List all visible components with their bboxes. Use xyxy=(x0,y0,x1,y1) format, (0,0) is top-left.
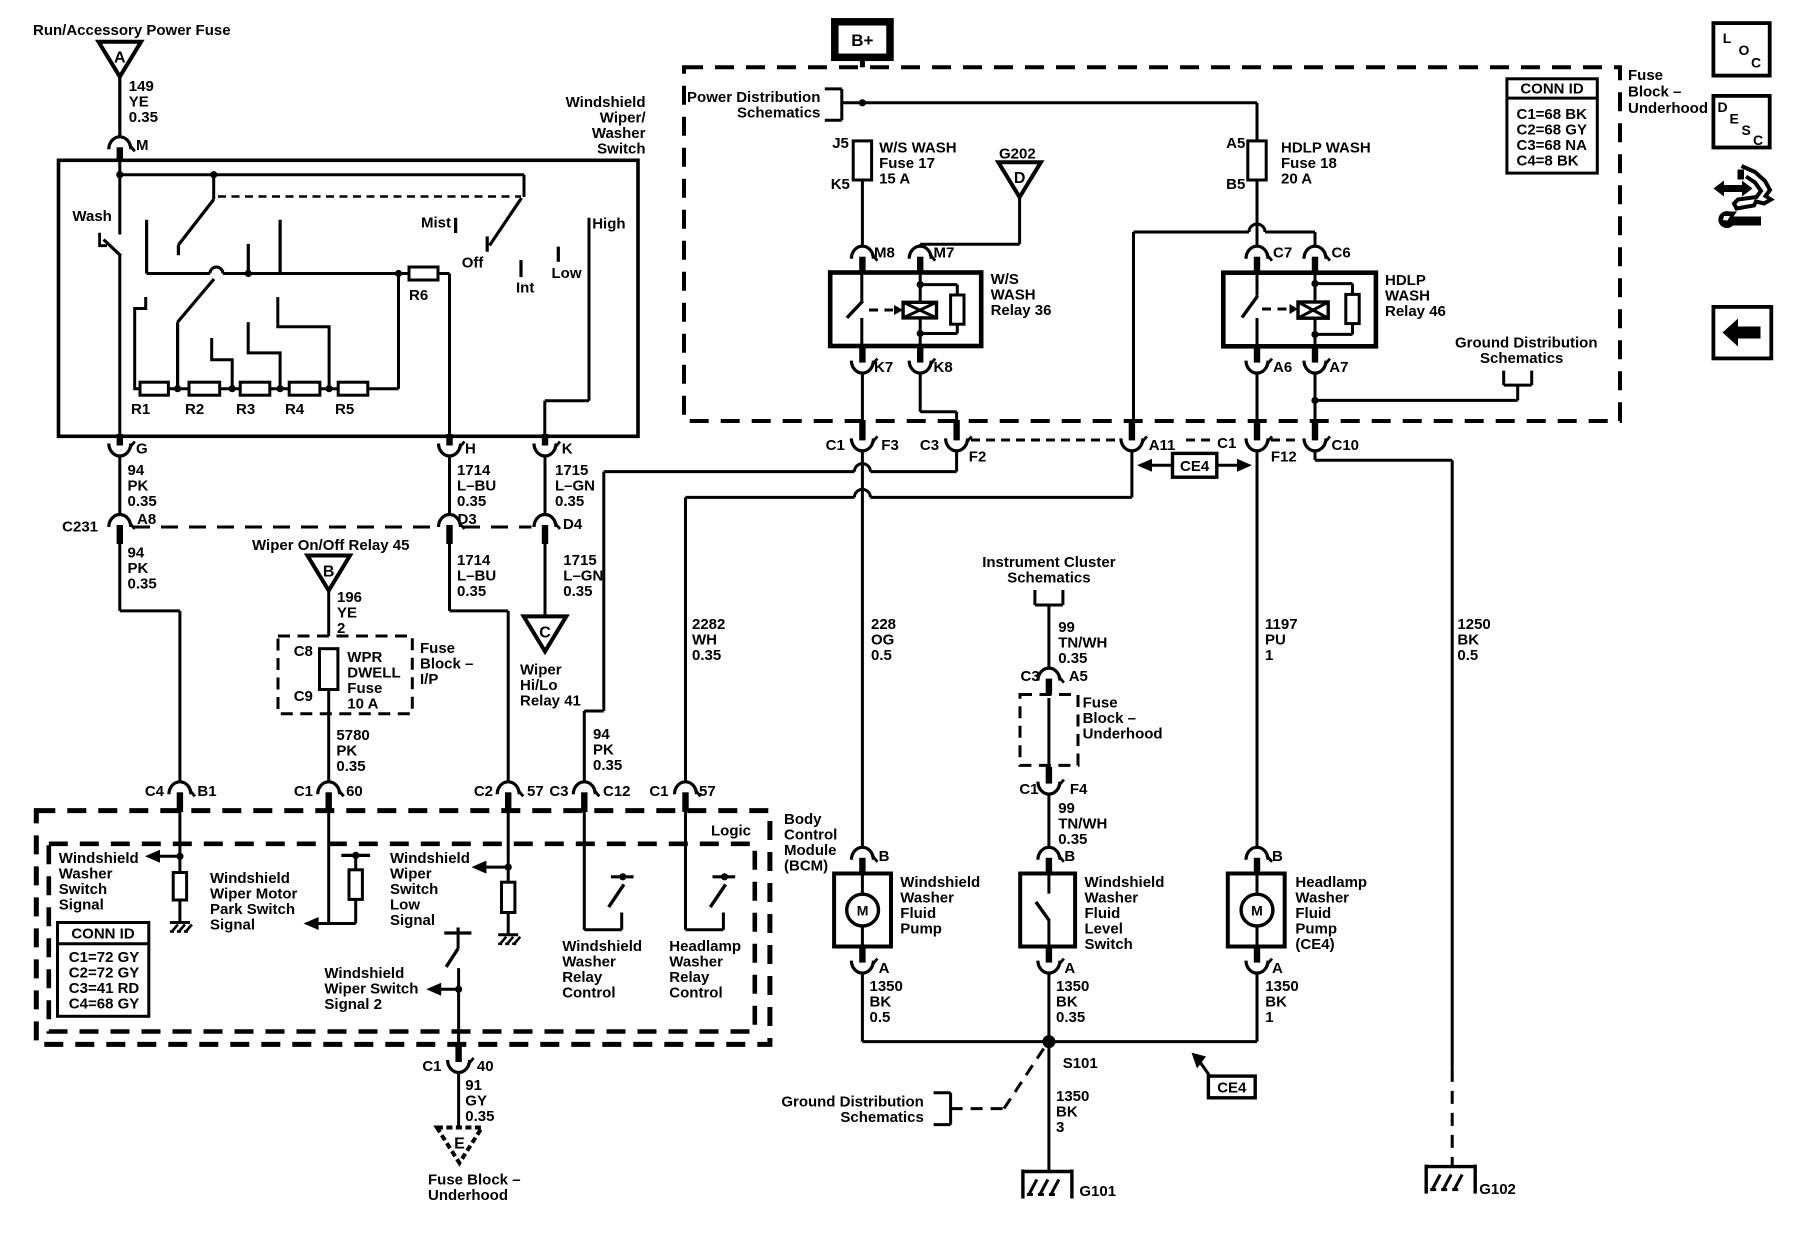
svg-text:Fluid: Fluid xyxy=(1295,905,1331,922)
label Instrument Cluster Schematics xyxy=(982,554,1116,587)
bracket ground distribution bottom xyxy=(934,1093,951,1125)
svg-text:A: A xyxy=(114,50,126,67)
wire switch feed bus xyxy=(116,160,524,178)
icon box LOC xyxy=(1713,23,1769,76)
svg-text:C: C xyxy=(1753,132,1763,148)
svg-text:Instrument Cluster: Instrument Cluster xyxy=(982,554,1116,571)
svg-text:C1=68 BK: C1=68 BK xyxy=(1517,106,1588,123)
wire K8 to C3 F2 xyxy=(920,373,956,420)
svg-text:Level: Level xyxy=(1085,921,1123,938)
svg-text:B1: B1 xyxy=(197,783,216,800)
svg-text:Control: Control xyxy=(669,985,722,1002)
arrow wiper low signal xyxy=(471,861,508,874)
svg-text:B: B xyxy=(879,848,890,865)
terminal H xyxy=(439,434,476,458)
relay 46 switch xyxy=(1242,273,1258,347)
connector C3 C12 xyxy=(549,782,630,812)
contact post upper right xyxy=(279,220,282,274)
wire label 1715 L-GN 0.35 xyxy=(555,462,595,510)
svg-text:196: 196 xyxy=(337,589,362,606)
ground reference triangle D (G202) xyxy=(998,146,1041,198)
headlamp washer fluid pump box xyxy=(1228,874,1285,947)
resistor R2 xyxy=(185,382,220,418)
wire fuse to connector C1 60 xyxy=(327,690,330,783)
connector C1 60 xyxy=(294,782,363,812)
svg-text:R1: R1 xyxy=(131,401,150,418)
power reference triangle E (Fuse Block Underhood) xyxy=(437,1128,482,1164)
wire headlamp pump to S101 xyxy=(1256,973,1259,1042)
svg-text:F3: F3 xyxy=(881,437,899,454)
svg-text:M: M xyxy=(136,137,149,154)
svg-text:L–GN: L–GN xyxy=(563,568,603,585)
svg-text:O: O xyxy=(1739,42,1750,58)
svg-text:Switch: Switch xyxy=(59,881,107,898)
svg-text:Int: Int xyxy=(516,280,534,297)
svg-text:YE: YE xyxy=(129,94,149,111)
label Headlamp Washer Fluid Pump CE4 xyxy=(1295,874,1367,953)
svg-text:D: D xyxy=(1014,170,1026,187)
contact post upper left xyxy=(145,220,148,274)
table CONN ID BCM xyxy=(58,923,149,1017)
wire high contact to terminal K xyxy=(545,401,589,437)
connector B headlamp pump xyxy=(1246,847,1283,875)
svg-text:94: 94 xyxy=(128,545,145,562)
svg-text:Low: Low xyxy=(552,265,582,282)
wire G to C231 xyxy=(118,456,121,515)
svg-text:Relay 36: Relay 36 xyxy=(991,302,1052,319)
svg-text:Fuse: Fuse xyxy=(1083,695,1118,712)
resistor R4 xyxy=(285,382,320,418)
fuse WPR DWELL Fuse 10 A xyxy=(294,643,401,713)
resistor washer switch signal pulldown xyxy=(173,873,186,901)
svg-text:Fuse: Fuse xyxy=(1628,67,1663,84)
connector A level switch xyxy=(1038,945,1076,978)
svg-text:Windshield: Windshield xyxy=(59,850,139,867)
connector M8 xyxy=(851,245,894,275)
body control module dashed box xyxy=(36,811,770,1045)
svg-text:1: 1 xyxy=(1265,647,1273,664)
label Ground Distribution Schematics top xyxy=(1455,335,1597,368)
svg-text:Washer: Washer xyxy=(59,866,113,883)
svg-text:TN/WH: TN/WH xyxy=(1058,816,1107,833)
connector D4 xyxy=(534,515,583,545)
connector K8 xyxy=(909,344,952,376)
wire label 149 YE 0.35 xyxy=(129,78,158,126)
motor symbol washer pump xyxy=(847,874,879,947)
svg-text:H: H xyxy=(465,441,476,458)
svg-text:57: 57 xyxy=(527,783,544,800)
svg-text:G: G xyxy=(136,441,148,458)
label Body Control Module BCM xyxy=(784,811,837,875)
label Windshield Washer Fluid Level Switch xyxy=(1085,874,1165,953)
wire label 99 TN/WH 0.35 lower xyxy=(1058,800,1107,848)
wire label 91 GY 0.35 xyxy=(465,1077,494,1125)
svg-text:Headlamp: Headlamp xyxy=(1295,874,1367,891)
svg-text:Windshield: Windshield xyxy=(390,850,470,867)
connector C1 F3 xyxy=(826,420,899,454)
svg-text:C: C xyxy=(1751,55,1761,71)
svg-text:C3=41 RD: C3=41 RD xyxy=(69,980,140,997)
windshield washer fluid pump box xyxy=(834,874,891,947)
svg-text:High: High xyxy=(592,216,625,233)
svg-text:Wiper On/Off Relay 45: Wiper On/Off Relay 45 xyxy=(252,537,409,554)
svg-text:57: 57 xyxy=(699,783,716,800)
fuse HDLP WASH Fuse 18 20 A xyxy=(1226,135,1371,193)
ground BCM washer switch signal xyxy=(170,923,192,932)
svg-text:J5: J5 xyxy=(832,135,849,152)
label Windshield Wiper Motor Park Switch Signal xyxy=(210,870,298,934)
label Low and contact xyxy=(552,247,582,282)
svg-text:C1: C1 xyxy=(826,437,845,454)
wire R1 left hook contact xyxy=(135,297,146,389)
svg-text:(CE4): (CE4) xyxy=(1295,936,1334,953)
svg-text:0.35: 0.35 xyxy=(457,583,486,600)
wire park switch signal input xyxy=(327,812,330,924)
relay 36 coil wire xyxy=(917,273,924,347)
svg-text:Off: Off xyxy=(462,255,485,272)
wire HDLP feed bus with hop xyxy=(1134,224,1316,420)
label Windshield Wiper/Washer Switch xyxy=(566,94,647,158)
svg-text:Relay: Relay xyxy=(562,969,603,986)
label Wiper On/Off Relay 45 xyxy=(252,537,409,554)
svg-text:A11: A11 xyxy=(1149,437,1176,454)
svg-text:5780: 5780 xyxy=(336,727,369,744)
resistor R6 xyxy=(409,267,450,304)
svg-text:Windshield: Windshield xyxy=(566,94,646,111)
svg-text:Wiper Motor: Wiper Motor xyxy=(210,886,298,903)
resistor R1 xyxy=(131,382,168,418)
wire pullup resistor to arrow bar xyxy=(354,899,357,923)
svg-text:0.5: 0.5 xyxy=(1457,647,1478,664)
svg-text:A: A xyxy=(1064,960,1075,977)
svg-text:10 A: 10 A xyxy=(347,696,378,713)
svg-text:Schematics: Schematics xyxy=(1480,350,1563,367)
svg-text:Washer: Washer xyxy=(900,890,954,907)
wire H to D3 xyxy=(448,456,451,515)
svg-text:D4: D4 xyxy=(563,516,583,533)
relay 46 parallel resistor xyxy=(1315,284,1359,335)
motor symbol headlamp pump xyxy=(1241,874,1273,947)
svg-text:M: M xyxy=(1251,903,1263,919)
relay HDLP WASH Relay 46 box xyxy=(1223,273,1376,347)
svg-text:1715: 1715 xyxy=(563,552,596,569)
svg-text:C1: C1 xyxy=(649,783,668,800)
svg-text:Body: Body xyxy=(784,811,822,828)
svg-text:Fuse 17: Fuse 17 xyxy=(879,155,935,172)
connector M7 xyxy=(909,245,954,275)
svg-text:Fuse Block –: Fuse Block – xyxy=(428,1172,521,1189)
svg-text:2: 2 xyxy=(337,620,345,637)
svg-text:20 A: 20 A xyxy=(1281,171,1312,188)
svg-text:99: 99 xyxy=(1058,800,1075,817)
connector C231 A8 xyxy=(62,511,156,544)
resistor R3 xyxy=(236,382,270,418)
logic dashed box xyxy=(49,844,755,1032)
svg-text:1250: 1250 xyxy=(1457,616,1490,633)
svg-text:S: S xyxy=(1742,122,1751,138)
label Logic xyxy=(711,823,751,840)
connector C3 F2 xyxy=(920,420,986,466)
label Windshield Wiper Switch Signal 2 xyxy=(324,965,418,1013)
contact post int feed xyxy=(245,244,252,277)
svg-text:M: M xyxy=(857,903,869,919)
fuse block underhood dashed box xyxy=(684,67,1620,421)
wire label 1350 BK 0.35 xyxy=(1056,978,1089,1026)
svg-text:G102: G102 xyxy=(1479,1181,1516,1198)
svg-text:Windshield: Windshield xyxy=(562,938,642,955)
svg-text:GY: GY xyxy=(465,1093,487,1110)
svg-text:0.35: 0.35 xyxy=(1056,1009,1085,1026)
label Wash xyxy=(72,208,111,225)
svg-text:0.35: 0.35 xyxy=(555,493,584,510)
svg-text:0.35: 0.35 xyxy=(1058,650,1087,667)
svg-text:Hi/Lo: Hi/Lo xyxy=(520,677,558,694)
connector C1 57 xyxy=(649,782,715,812)
svg-text:M8: M8 xyxy=(874,245,895,262)
svg-text:2282: 2282 xyxy=(692,616,725,633)
label Mist and contact xyxy=(421,215,456,233)
svg-text:WASH: WASH xyxy=(991,287,1036,304)
svg-text:PK: PK xyxy=(593,742,614,759)
wire S101 to G101 xyxy=(1047,1042,1050,1172)
svg-text:Wiper Switch: Wiper Switch xyxy=(324,981,418,998)
wire F3 to washer pump B xyxy=(861,451,864,847)
wire F12 to headlamp pump B xyxy=(1256,451,1259,847)
svg-text:C1: C1 xyxy=(294,783,313,800)
svg-text:PU: PU xyxy=(1265,632,1286,649)
svg-text:CONN ID: CONN ID xyxy=(1520,81,1584,98)
svg-text:1: 1 xyxy=(1265,1009,1273,1026)
connector C3 A5 xyxy=(1021,668,1088,698)
svg-text:0.35: 0.35 xyxy=(692,647,721,664)
wire wiper signal 2 to C1 40 xyxy=(455,968,462,1044)
wire power distribution feed xyxy=(842,99,1257,141)
wire label 94 PK 0.35 xyxy=(128,462,157,510)
wire R6 to terminal H xyxy=(448,274,451,437)
svg-text:Logic: Logic xyxy=(711,823,751,840)
label W/S WASH Relay 36 xyxy=(991,271,1052,319)
svg-text:3: 3 xyxy=(1056,1119,1064,1136)
fuse block I/P dashed box xyxy=(278,636,412,714)
svg-text:91: 91 xyxy=(465,1077,482,1094)
svg-text:Washer: Washer xyxy=(592,125,646,142)
svg-text:Signal 2: Signal 2 xyxy=(324,996,382,1013)
wire label 1714 L-BU 0.35 xyxy=(457,462,496,510)
svg-text:Headlamp: Headlamp xyxy=(669,938,741,955)
relay reference triangle C (Wiper Hi/Lo Relay 41) xyxy=(524,616,567,651)
connector C4 B1 xyxy=(145,782,217,812)
svg-text:C4=68 GY: C4=68 GY xyxy=(69,996,139,1013)
wire mode switch pivot drop xyxy=(212,175,215,200)
node S101 xyxy=(1042,1035,1097,1072)
svg-text:Wiper: Wiper xyxy=(390,866,432,883)
contact post over R2-R3 xyxy=(212,338,233,389)
svg-text:Wiper: Wiper xyxy=(520,662,562,679)
fuse W/S WASH Fuse 17 15 A xyxy=(831,135,957,193)
svg-text:0.35: 0.35 xyxy=(129,109,158,126)
wire through fuse block small box xyxy=(1047,698,1050,767)
connector C6 xyxy=(1304,245,1351,275)
wire R5 chain riser xyxy=(397,274,400,389)
connector B level switch xyxy=(1038,847,1076,875)
svg-text:C3: C3 xyxy=(920,437,939,454)
windshield washer fluid level switch box xyxy=(1020,874,1075,947)
svg-text:R4: R4 xyxy=(285,401,305,418)
label Windshield Wiper Switch Low Signal xyxy=(390,850,470,929)
svg-text:W/S: W/S xyxy=(991,271,1019,288)
wire label 2282 WH 0.35 xyxy=(692,616,725,664)
svg-text:Ground Distribution: Ground Distribution xyxy=(781,1093,923,1110)
connector C10 xyxy=(1304,420,1359,454)
label Headlamp Washer Relay Control xyxy=(669,938,741,1002)
svg-text:Washer: Washer xyxy=(669,954,723,971)
battery feed B+ xyxy=(835,22,890,58)
svg-text:Windshield: Windshield xyxy=(210,870,290,887)
svg-text:1714: 1714 xyxy=(457,462,491,479)
svg-text:Mist: Mist xyxy=(421,215,451,232)
svg-text:D3: D3 xyxy=(458,511,477,528)
connector D3 xyxy=(439,511,477,544)
svg-text:Block –: Block – xyxy=(1628,84,1681,101)
resistor R5 xyxy=(335,382,368,418)
svg-text:Fluid: Fluid xyxy=(900,905,936,922)
svg-text:(BCM): (BCM) xyxy=(784,858,828,875)
svg-text:C: C xyxy=(539,624,551,641)
svg-text:Washer: Washer xyxy=(562,954,616,971)
svg-text:BK: BK xyxy=(1056,1104,1078,1121)
label Wiper Hi/Lo Relay 41 xyxy=(520,662,581,710)
wire D4 to triangle C xyxy=(544,544,547,616)
ground BCM wiper low signal xyxy=(498,935,520,944)
svg-text:0.5: 0.5 xyxy=(870,1009,891,1026)
relay 36 switch xyxy=(847,273,863,347)
svg-text:Wash: Wash xyxy=(72,208,111,225)
svg-text:Windshield: Windshield xyxy=(1085,874,1165,891)
pullup bar park switch xyxy=(341,852,370,870)
label Fuse Block - I/P xyxy=(420,640,473,688)
svg-text:C4: C4 xyxy=(145,783,165,800)
svg-text:C3: C3 xyxy=(549,783,568,800)
ground G102 xyxy=(1426,1165,1516,1198)
svg-text:1350: 1350 xyxy=(1265,978,1298,995)
wire wiper low resistor to ground xyxy=(507,913,510,935)
svg-text:Ground Distribution: Ground Distribution xyxy=(1455,335,1597,352)
svg-text:CONN ID: CONN ID xyxy=(71,926,135,943)
label Ground Distribution Schematics bottom xyxy=(781,1093,923,1126)
svg-text:K8: K8 xyxy=(934,359,953,376)
connector C2 57 xyxy=(474,782,544,812)
connector A11 xyxy=(1121,420,1176,454)
svg-text:DWELL: DWELL xyxy=(347,665,400,682)
label Fuse Block - Underhood bottom xyxy=(428,1172,521,1205)
wire triangle A to connector M xyxy=(118,77,121,138)
wire D3 to C2 jog xyxy=(450,544,509,782)
svg-text:Park Switch: Park Switch xyxy=(210,901,295,918)
wash switch xyxy=(100,175,121,256)
svg-text:C1: C1 xyxy=(422,1058,441,1075)
svg-text:Fuse 18: Fuse 18 xyxy=(1281,155,1337,172)
svg-text:K: K xyxy=(562,441,573,458)
callout CE4 with arrows xyxy=(1137,453,1252,477)
svg-text:C6: C6 xyxy=(1332,245,1351,262)
svg-text:Pump: Pump xyxy=(900,921,942,938)
dashed connector line C231 xyxy=(133,526,532,529)
svg-text:Relay 41: Relay 41 xyxy=(520,693,581,710)
svg-text:M7: M7 xyxy=(934,245,955,262)
svg-text:L: L xyxy=(1723,30,1732,46)
svg-text:R6: R6 xyxy=(409,287,428,304)
svg-text:Wiper/: Wiper/ xyxy=(600,110,647,127)
wire wiper low signal input xyxy=(505,812,512,882)
wire label 228 OG 0.5 xyxy=(871,616,896,664)
svg-text:1350: 1350 xyxy=(1056,1088,1089,1105)
svg-text:60: 60 xyxy=(346,783,363,800)
svg-text:E: E xyxy=(1730,111,1739,127)
wire F2 to BCM washer relay control xyxy=(584,451,956,782)
ground G101 xyxy=(1023,1170,1116,1201)
svg-text:C3=68 NA: C3=68 NA xyxy=(1517,137,1588,154)
relay 46 coil wire xyxy=(1311,273,1318,347)
icon box DESC xyxy=(1713,96,1769,148)
svg-text:99: 99 xyxy=(1058,619,1075,636)
svg-text:A: A xyxy=(879,960,890,977)
label Run/Accessory Power Fuse xyxy=(33,22,231,39)
relay 46 coil xyxy=(1298,302,1328,318)
svg-text:Signal: Signal xyxy=(390,912,435,929)
svg-text:PK: PK xyxy=(336,743,357,760)
svg-text:A6: A6 xyxy=(1273,359,1292,376)
svg-text:Power Distribution: Power Distribution xyxy=(687,89,820,106)
resistor wiper low pulldown xyxy=(502,882,515,912)
svg-text:94: 94 xyxy=(128,462,145,479)
wire mist/off pivot drop xyxy=(523,175,526,197)
connector C1 F12 xyxy=(1217,420,1297,466)
svg-text:G101: G101 xyxy=(1079,1183,1116,1200)
table CONN ID underhood xyxy=(1507,79,1597,173)
wire triangle B to WPR DWELL fuse xyxy=(327,591,330,649)
wire C1 F4 to level switch B xyxy=(1047,794,1050,847)
svg-text:S101: S101 xyxy=(1063,1055,1098,1072)
wire G202 to M7 xyxy=(920,197,1019,247)
svg-text:F12: F12 xyxy=(1271,449,1297,466)
terminal G xyxy=(109,434,148,458)
delay wiper blade xyxy=(178,279,214,389)
connector C1 F4 xyxy=(1019,767,1088,798)
svg-text:1350: 1350 xyxy=(1056,978,1089,995)
resistor park switch pullup xyxy=(349,870,362,900)
svg-text:0.5: 0.5 xyxy=(871,647,892,664)
switch wiper signal 2 driver xyxy=(444,928,471,967)
svg-text:B: B xyxy=(1064,848,1075,865)
svg-text:149: 149 xyxy=(129,78,154,95)
label Power Distribution Schematics xyxy=(687,89,820,122)
svg-text:Run/Accessory Power Fuse: Run/Accessory Power Fuse xyxy=(33,22,231,39)
svg-text:0.35: 0.35 xyxy=(1058,831,1087,848)
arrow wiper signal 2 xyxy=(426,983,458,996)
svg-text:Module: Module xyxy=(784,842,837,859)
wire level switch to S101 xyxy=(1047,973,1050,1042)
svg-text:Schematics: Schematics xyxy=(840,1109,923,1126)
terminal K xyxy=(534,434,573,458)
connector K7 xyxy=(851,344,893,376)
switch headlamp washer relay control driver xyxy=(686,812,736,930)
svg-text:Schematics: Schematics xyxy=(1007,570,1090,587)
svg-text:Relay 46: Relay 46 xyxy=(1385,303,1446,320)
svg-text:TN/WH: TN/WH xyxy=(1058,635,1107,652)
connector A6 xyxy=(1246,344,1292,376)
wire label 196 YE 2 xyxy=(337,589,362,637)
svg-text:C8: C8 xyxy=(294,643,313,660)
